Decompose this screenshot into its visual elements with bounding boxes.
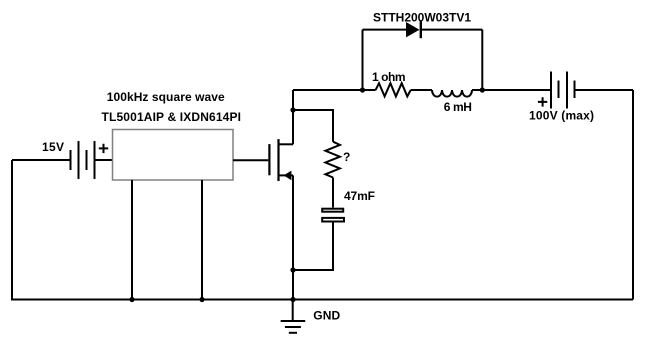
node diode left junction (360, 87, 365, 92)
wire between R2 and L1 (411, 89, 432, 91)
driver box U1 (113, 130, 234, 181)
diode D1 cathode bar (420, 21, 422, 38)
wire box leg 2 to ground rail (201, 180, 203, 300)
node drain branch junction (290, 107, 295, 112)
plus sign of B1 (99, 144, 108, 153)
node leg1 junction (129, 297, 134, 302)
ground symbol (281, 300, 306, 333)
transistor Q1 source arrow (284, 171, 292, 181)
wire box output to gate (233, 159, 268, 161)
resistor R1 unknown (325, 142, 340, 178)
transistor Q1 N-MOSFET (269, 139, 278, 181)
wire diode loop left vertical (362, 30, 364, 90)
transistor Q1 source lead (279, 174, 294, 176)
resistor R2 1 ohm (376, 83, 411, 96)
svg-text:?: ? (343, 150, 350, 164)
node diode right junction (480, 87, 485, 92)
svg-text:47mF: 47mF (344, 189, 375, 203)
svg-text:100V (max): 100V (max) (529, 109, 594, 123)
inductor L1 6 mH (432, 90, 472, 97)
wire C1 to source node (293, 223, 333, 271)
wire diode top right segment (421, 29, 483, 31)
wire B2 to right rail (575, 89, 634, 91)
node ground junction (290, 297, 295, 302)
wire B1 positive to driver box (95, 159, 113, 161)
svg-text:100kHz square wave: 100kHz square wave (107, 90, 225, 104)
wire R1 to C1 (332, 178, 334, 208)
svg-text:TL5001AIP & IXDN614PI: TL5001AIP & IXDN614PI (102, 110, 242, 124)
plus sign of B2 (538, 97, 547, 106)
svg-text:15V: 15V (42, 140, 64, 154)
node source capacitor junction (290, 267, 295, 272)
svg-text:GND: GND (313, 309, 340, 323)
battery B1 15V (71, 141, 95, 179)
capacitor C1 top plate (322, 209, 343, 212)
wire L1 to battery B2 (472, 89, 551, 91)
wire diode loop right vertical (481, 30, 483, 90)
wire source down to ground rail (292, 175, 294, 299)
wire right rail down (632, 90, 634, 300)
transistor Q1 drain lead (279, 143, 294, 145)
wire diode top left segment (363, 29, 407, 31)
wire left rail down (11, 160, 13, 300)
diode D1 anode triangle (406, 22, 420, 37)
wire box leg 1 to ground rail (131, 180, 133, 300)
wire top rail from drain to R2 (293, 89, 376, 91)
svg-text:STTH200W03TV1: STTH200W03TV1 (373, 10, 471, 24)
wire from battery B1 negative to left rail (12, 159, 71, 161)
node leg2 junction (199, 297, 204, 302)
svg-text:1 ohm: 1 ohm (372, 70, 406, 84)
battery B2 100V (551, 72, 575, 109)
wire bottom rail (11, 299, 633, 301)
wire drain node to R1 branch (293, 110, 333, 142)
capacitor C1 bottom plate (322, 218, 344, 222)
wire drain to top rail (292, 90, 294, 144)
svg-text:6 mH: 6 mH (444, 100, 472, 114)
